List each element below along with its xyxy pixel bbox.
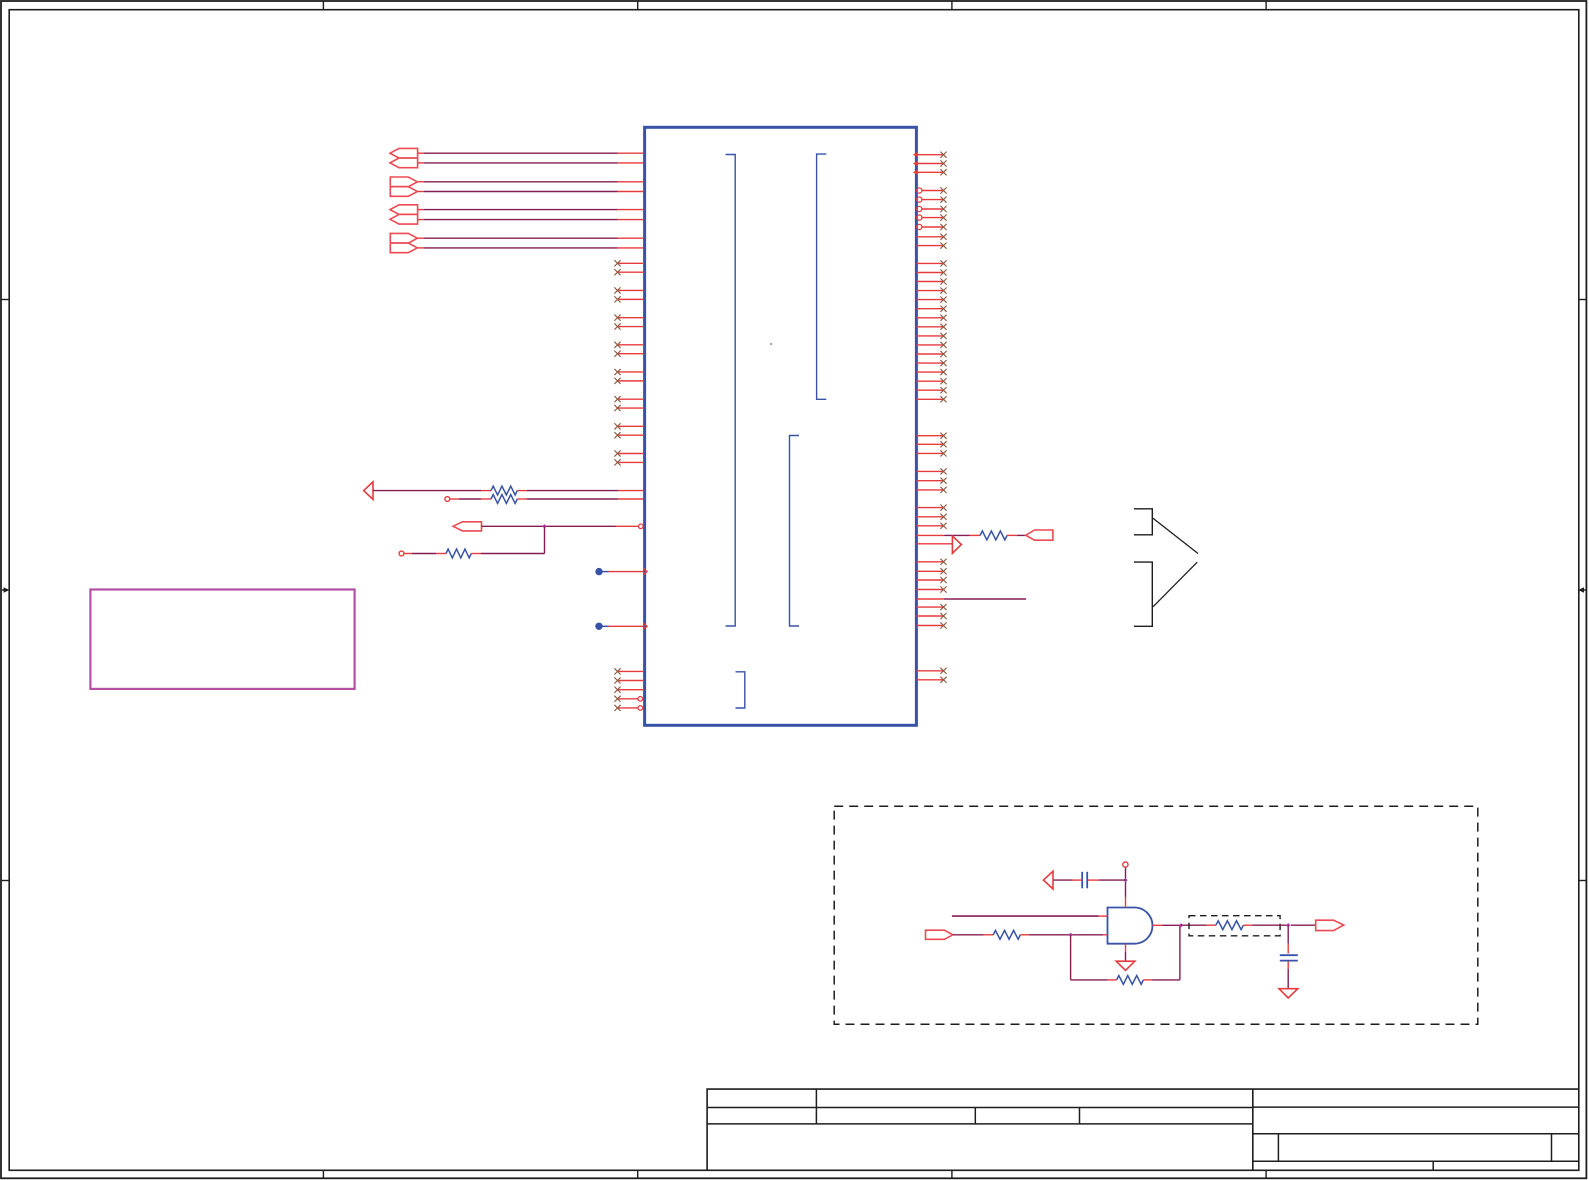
- border zone tick right 1: [1579, 299, 1587, 301]
- wire C1 to arrow connector A2: [1053, 879, 1082, 881]
- border zone tick right 2: [1579, 880, 1587, 882]
- IC bottom-left NC pin 3: [614, 687, 644, 693]
- border zone tick left 2: [1, 880, 9, 882]
- capacitor C2: [1280, 955, 1298, 960]
- IC right NC pin c7: [916, 505, 946, 511]
- IC right NC pin c9: [916, 523, 946, 529]
- IC left NC pin 2: [614, 269, 644, 275]
- IC right NC pin b8: [916, 324, 946, 330]
- wire U2 top pin up: [1125, 867, 1127, 907]
- IC left NC pin 8: [614, 351, 644, 357]
- pin wire from D1 into IC: [599, 568, 647, 574]
- dashed region box: [834, 806, 1478, 1024]
- IC left NC pin 6: [614, 323, 644, 329]
- wire feedback J3 down and right: [1071, 935, 1117, 980]
- dangling wire net from IC right pin: [916, 598, 1026, 600]
- wire C2 down to ground GND2: [1287, 962, 1289, 989]
- node stub N1: [445, 497, 450, 502]
- IC right arrow pin 3: [913, 169, 947, 175]
- IC right NC pin d3: [916, 577, 946, 583]
- border center arrow right: [1578, 587, 1586, 592]
- IC right NC pin c1: [916, 433, 946, 439]
- IC right arrow pin 2: [913, 160, 947, 166]
- IC left NC pin 3: [614, 287, 644, 293]
- wire R7 to junction J5: [1243, 924, 1288, 926]
- resistor R1: [491, 486, 517, 495]
- IC right NC pin c2: [916, 441, 946, 447]
- IC right NC pin b1: [916, 260, 946, 266]
- off-page connector P2: [390, 158, 418, 168]
- text frame box: [90, 590, 354, 689]
- title block outline: [707, 1089, 1579, 1170]
- junction J3: [1068, 933, 1072, 937]
- border zone tick bottom 4: [1265, 1170, 1267, 1178]
- IC right NC pin b7: [916, 315, 946, 321]
- wire J5 down to capacitor C2: [1287, 925, 1289, 953]
- border zone tick top 3: [951, 1, 953, 10]
- off-page connector P12: [1316, 920, 1344, 930]
- IC right NC pin c6: [916, 487, 946, 493]
- IC right NC pin b14: [916, 378, 946, 384]
- wire J2 left to capacitor C1: [1087, 879, 1125, 881]
- IC right NC pin c8: [916, 514, 946, 520]
- wire net W5 to IC left pin: [418, 209, 644, 211]
- IC right clock pin with triangle T1: [916, 536, 961, 553]
- node stub N2: [399, 551, 404, 556]
- IC U1 inner bracket 4: [736, 672, 745, 708]
- wire U2 output to junction J4: [1153, 924, 1182, 926]
- IC right NC pin c4: [916, 468, 946, 474]
- IC U1 body: [645, 127, 917, 725]
- IC right NC pin b3: [916, 278, 946, 284]
- IC right NC pin d1: [916, 559, 946, 565]
- IC left NC pin 9: [614, 369, 644, 375]
- IC bottom-left NC inverted pin 2: [614, 705, 642, 711]
- off-page connector P1: [390, 148, 418, 158]
- IC left NC pin 10: [614, 378, 644, 384]
- wire vertical J1 down: [544, 526, 546, 553]
- IC right NC pin c3: [916, 450, 946, 456]
- IC left NC pin 5: [614, 315, 644, 321]
- IC right inverted NC pin 5: [917, 224, 947, 230]
- off-page connector P5: [390, 205, 418, 215]
- ground GND2: [1279, 989, 1298, 998]
- junction J1: [542, 524, 546, 528]
- IC left NC pin 13: [614, 423, 644, 429]
- IC right inverted NC pin 3: [917, 206, 947, 212]
- IC right inverted NC pin 2: [917, 197, 947, 203]
- IC bottom-left NC pin 1: [614, 668, 644, 674]
- wire net W2 to IC left pin: [418, 162, 644, 164]
- title block left rows: [707, 1089, 1253, 1124]
- wire from R3 to J1 branch: [471, 553, 544, 555]
- off-page connector P8: [390, 243, 417, 253]
- IC right NC pin b6: [916, 306, 946, 312]
- IC right NC pin c5: [916, 478, 946, 484]
- IC right NC pin d2: [916, 568, 946, 574]
- pin wire from D2 into IC: [599, 623, 647, 629]
- highlight dashed box around R7: [1189, 916, 1280, 936]
- border zone tick top 2: [637, 1, 639, 10]
- junction J5: [1286, 923, 1290, 927]
- wire from A1 to resistor R1: [373, 490, 491, 492]
- junction dot D1: [595, 568, 602, 575]
- IC left NC pin 11: [614, 396, 644, 402]
- border zone tick top 1: [322, 1, 324, 10]
- wire net W1 to IC left pin: [418, 152, 644, 154]
- wire net W6 to IC left pin: [418, 219, 644, 221]
- off-page connector P7: [390, 233, 417, 243]
- resistor R5: [993, 930, 1020, 939]
- border center arrow left: [1, 587, 9, 592]
- wire net W7 to IC left pin: [418, 237, 644, 239]
- junction dot D2: [595, 623, 602, 630]
- IC left NC pin 4: [614, 296, 644, 302]
- border zone tick bottom 1: [322, 1170, 324, 1178]
- wire R6 up to output node: [1143, 925, 1180, 980]
- off-sheet diagonal line 1: [1153, 518, 1198, 553]
- IC bottom-left NC inverted pin 1: [614, 696, 642, 702]
- off-page connector P9: [453, 522, 482, 531]
- IC right NC pin a1: [916, 234, 946, 240]
- border zone tick bottom 3: [951, 1170, 953, 1178]
- IC right arrow pin 1: [913, 152, 947, 158]
- pin bubble B1: [639, 524, 644, 529]
- node stub N3: [1123, 862, 1128, 867]
- IC right NC pin b4: [916, 288, 946, 294]
- resistor R7: [1216, 921, 1244, 930]
- off-sheet diagonal line 2: [1153, 562, 1197, 607]
- junction J2: [1123, 878, 1127, 882]
- wire R4 to connector P10: [1007, 534, 1026, 536]
- wire IC pin to resistor R4: [916, 534, 980, 536]
- IC right NC pin e2: [916, 613, 946, 619]
- IC right NC pin f1: [916, 668, 946, 674]
- junction J4: [1179, 923, 1183, 927]
- IC right NC pin b5: [916, 297, 946, 303]
- title block right rows: [1253, 1107, 1579, 1170]
- wire P11 to resistor R5: [953, 934, 993, 936]
- IC right NC pin b16: [916, 396, 946, 402]
- IC left NC pin 16: [614, 459, 644, 465]
- IC U1 stray mark: [770, 343, 772, 345]
- resistor R4: [980, 531, 1007, 540]
- wire from R1 to IC pin: [517, 490, 643, 492]
- IC right inverted NC pin 1: [917, 187, 947, 193]
- IC left NC pin 7: [614, 342, 644, 348]
- input arrow connector A2: [1044, 871, 1054, 889]
- wire J5 to connector P12: [1291, 924, 1316, 926]
- wire from N1 to resistor R2: [450, 498, 491, 500]
- wire from P9 to IC inverted pin: [482, 525, 639, 527]
- IC right NC pin b2: [916, 269, 946, 275]
- capacitor C1: [1082, 872, 1087, 889]
- IC right NC pin b12: [916, 360, 946, 366]
- wire U2 upper input dangling: [952, 915, 1108, 917]
- border zone tick left 1: [1, 299, 9, 301]
- wire net W8 to IC left pin: [418, 247, 644, 249]
- wire from R2 to IC pin: [517, 498, 643, 500]
- input arrow connector A1: [364, 482, 373, 500]
- off-page connector P4: [390, 187, 417, 197]
- off-page connector P11: [926, 930, 953, 939]
- IC right inverted NC pin 4: [917, 215, 947, 221]
- resistor R2: [491, 495, 517, 504]
- off-page connector P10: [1026, 530, 1053, 540]
- off-page connector P6: [390, 214, 418, 224]
- IC right NC pin d4: [916, 586, 946, 592]
- IC U1 inner bracket 3: [790, 436, 800, 627]
- IC U1 inner bracket 2: [817, 154, 827, 399]
- IC right NC pin e1: [916, 604, 946, 610]
- off-sheet bracket BR1: [1134, 509, 1152, 535]
- wire net W4 to IC left pin: [418, 191, 644, 193]
- border zone tick top 4: [1265, 1, 1267, 10]
- ground GND1: [1116, 944, 1135, 971]
- IC right NC pin b9: [916, 333, 946, 339]
- IC right NC pin b10: [916, 342, 946, 348]
- border zone tick bottom 2: [637, 1170, 639, 1178]
- IC right NC pin b15: [916, 387, 946, 393]
- resistor R6: [1117, 976, 1144, 985]
- AND gate U2: [1108, 908, 1153, 944]
- IC right NC pin b11: [916, 351, 946, 357]
- wire net W3 to IC left pin: [418, 181, 644, 183]
- resistor R3: [446, 549, 471, 558]
- IC left NC pin 12: [614, 405, 644, 411]
- IC bottom-left NC pin 2: [614, 677, 644, 683]
- IC U1 inner bracket 1: [726, 155, 736, 627]
- IC left NC pin 1: [614, 260, 644, 266]
- IC left NC pin 14: [614, 432, 644, 438]
- wire from N2 to resistor R3: [404, 553, 446, 555]
- IC right NC pin e3: [916, 622, 946, 628]
- IC right NC pin f2: [916, 677, 946, 683]
- IC right NC pin b13: [916, 369, 946, 375]
- IC right NC pin a2: [916, 243, 946, 249]
- off-sheet bracket BR2: [1134, 562, 1152, 626]
- off-page connector P3: [390, 177, 417, 187]
- wire R5 to U2 lower input: [1020, 934, 1107, 936]
- wire J4 to resistor R7: [1181, 924, 1216, 926]
- IC left NC pin 15: [614, 450, 644, 456]
